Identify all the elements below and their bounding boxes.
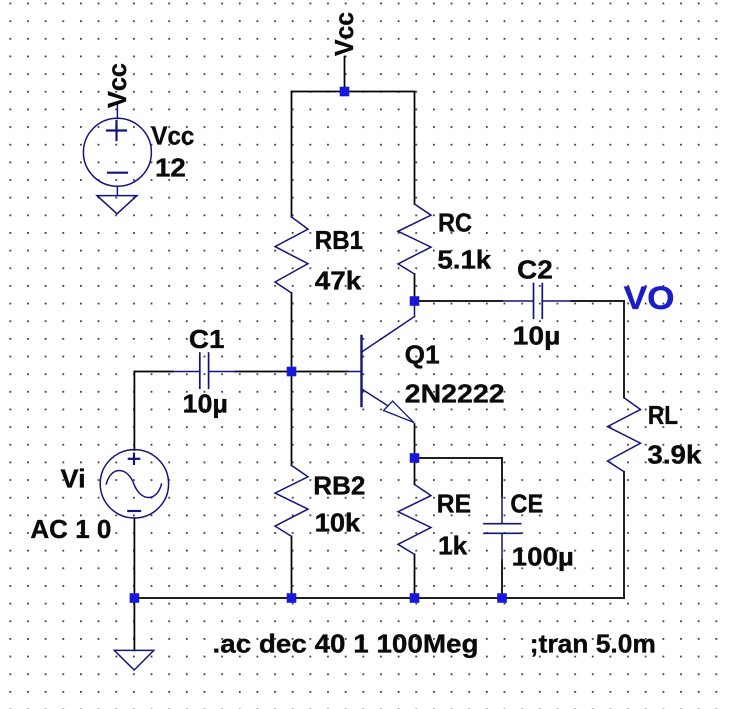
wire CE top lead [501, 458, 503, 497]
node bottom rail Vi [130, 593, 140, 603]
transistor Q1 [347, 301, 415, 422]
svg-text:100µ: 100µ [512, 542, 574, 572]
voltage source Vi [100, 450, 168, 518]
wire Vi bottom [133, 518, 135, 598]
svg-text:5.1k: 5.1k [437, 245, 491, 275]
node bottom rail RB2 [287, 593, 297, 603]
ground bottom left [114, 650, 154, 670]
wire emitter node to RE [414, 458, 416, 484]
svg-text:VO: VO [624, 280, 675, 316]
svg-text:RB2: RB2 [313, 471, 365, 501]
svg-text:Vcc: Vcc [329, 12, 359, 56]
svg-text:.ac dec 40 1 100Meg: .ac dec 40 1 100Meg [213, 628, 479, 658]
wire top rail [292, 91, 415, 93]
node emitter junction [410, 453, 420, 463]
wire C2 to VO corner [571, 300, 624, 302]
svg-text:;tran 5.0m: ;tran 5.0m [530, 628, 656, 658]
svg-text:RC: RC [438, 208, 472, 238]
wire RC to collector node [414, 274, 416, 301]
ground below Vcc [97, 196, 137, 214]
resistor RC [398, 204, 431, 274]
resistor RL [608, 398, 641, 472]
svg-text:RB1: RB1 [315, 225, 363, 255]
svg-text:Vcc: Vcc [102, 63, 132, 108]
wire Vcc stub to top rail [344, 57, 346, 92]
wire top rail to RC [414, 92, 416, 205]
wire bottom rail [134, 597, 624, 599]
wire Vi top [133, 372, 135, 451]
wire emitter to emitter node [414, 424, 416, 458]
resistor RE [398, 484, 431, 554]
svg-text:12: 12 [155, 152, 186, 182]
voltage source Vcc [83, 104, 151, 196]
wire ground stub bottom left [133, 598, 135, 650]
wire RB2 to bottom rail [291, 536, 293, 598]
svg-text:1k: 1k [438, 531, 468, 561]
node collector junction [410, 296, 420, 306]
wire C1 right to base [235, 371, 347, 373]
wire C1 left to Vi corner [134, 371, 173, 373]
svg-text:10µ: 10µ [183, 388, 228, 418]
wire CE bottom lead [501, 560, 503, 598]
node top rail junction [340, 87, 350, 97]
svg-text:RL: RL [648, 400, 678, 430]
wire top rail to RB1 [291, 92, 293, 218]
resistor RB1 [275, 217, 308, 293]
capacitor C2 [502, 284, 571, 319]
capacitor C1 [173, 353, 235, 388]
svg-text:3.9k: 3.9k [647, 440, 702, 470]
wire emitter node to CE [415, 457, 503, 459]
svg-text:47k: 47k [315, 266, 362, 296]
svg-text:C1: C1 [189, 324, 225, 354]
svg-text:10k: 10k [315, 507, 361, 537]
svg-text:CE: CE [510, 488, 543, 518]
node junctions [130, 87, 507, 603]
wire RB1 to base node [291, 293, 293, 372]
wire RE to bottom rail [414, 554, 416, 598]
wire collector node to C2 [415, 300, 503, 302]
resistor RB2 [275, 465, 308, 536]
wire RL to bottom rail [623, 472, 625, 598]
wire base node to RB2 [291, 372, 293, 466]
node bottom rail CE [497, 593, 507, 603]
node base junction [287, 367, 297, 377]
svg-text:Vi: Vi [61, 463, 86, 493]
svg-text:AC 1 0: AC 1 0 [30, 514, 111, 544]
wire VO corner down to RL [623, 301, 625, 398]
svg-text:10µ: 10µ [513, 321, 561, 351]
svg-text:Vcc: Vcc [151, 120, 194, 150]
node bottom rail RE [410, 593, 420, 603]
svg-text:RE: RE [437, 488, 471, 518]
capacitor CE [484, 497, 521, 560]
svg-text:2N2222: 2N2222 [405, 379, 505, 409]
svg-text:Q1: Q1 [405, 340, 440, 370]
svg-text:C2: C2 [517, 255, 553, 285]
